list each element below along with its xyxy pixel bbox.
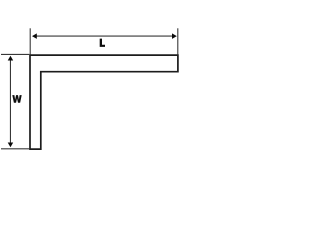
- L-shaped part outline: [30, 55, 178, 149]
- extension line left-bottom (for W dimension): [1, 148, 29, 150]
- dimension line L: [33, 35, 175, 37]
- arrowhead bottom of W dimension: [8, 143, 14, 148]
- dimension line W: [9, 58, 11, 145]
- label W: [12, 95, 21, 103]
- arrowhead left of L dimension: [32, 33, 37, 39]
- extension line top-right (for L dimension): [177, 28, 179, 54]
- extension line left-top (for W dimension): [1, 53, 29, 55]
- arrowhead right of L dimension: [172, 33, 177, 39]
- extension line top-left (for L dimension): [29, 28, 31, 54]
- arrowhead top of W dimension: [8, 56, 14, 61]
- label L: [100, 39, 105, 47]
